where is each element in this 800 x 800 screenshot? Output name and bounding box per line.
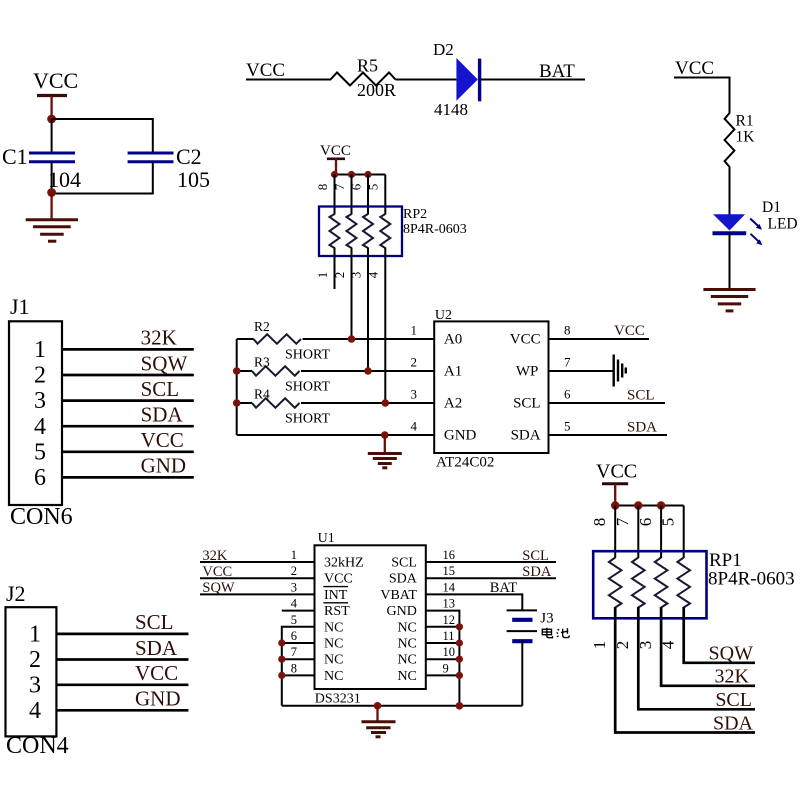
node A1 junction xyxy=(364,367,372,375)
svg-text:NC: NC xyxy=(397,620,416,635)
wire xyxy=(246,79,331,81)
wire U1 pin6 xyxy=(282,642,315,644)
svg-text:U2: U2 xyxy=(435,308,452,323)
svg-text:3: 3 xyxy=(349,272,364,279)
resistor R3 xyxy=(237,355,331,395)
wire pin7 xyxy=(637,506,639,559)
svg-text:VCC: VCC xyxy=(135,661,178,685)
resistor R2 xyxy=(237,319,331,363)
svg-text:12: 12 xyxy=(443,613,456,627)
ground (rotated, on WP) xyxy=(614,355,626,387)
svg-text:SCL: SCL xyxy=(391,556,417,571)
resistor R4 xyxy=(237,387,331,427)
node RP2 pin6 junction xyxy=(364,171,371,178)
svg-text:7: 7 xyxy=(332,183,347,190)
svg-text:NC: NC xyxy=(324,637,343,652)
svg-text:8P4R-0603: 8P4R-0603 xyxy=(403,222,467,237)
wire U1 pin14 VBAT xyxy=(426,594,523,610)
svg-text:SHORT: SHORT xyxy=(285,380,331,395)
wire J1-2 xyxy=(62,374,194,377)
wire U1 pin7 xyxy=(282,658,315,660)
wire RP1 pin2 SCL xyxy=(638,607,755,709)
wire U1 pin11 xyxy=(426,642,460,644)
svg-text:VBAT: VBAT xyxy=(380,588,417,603)
svg-text:4148: 4148 xyxy=(434,100,468,119)
svg-text:32K: 32K xyxy=(141,326,177,350)
wire xyxy=(729,167,731,216)
svg-text:J3: J3 xyxy=(540,611,553,627)
svg-text:SDA: SDA xyxy=(522,564,552,580)
svg-text:1: 1 xyxy=(291,548,297,562)
wire U1 pin10 xyxy=(426,658,460,660)
svg-text:SQW: SQW xyxy=(202,580,235,596)
wire U1 bottom bus xyxy=(282,705,523,707)
power VCC (top-right) xyxy=(674,58,730,114)
label 电池 battery xyxy=(542,628,569,638)
node RP1 pin8 junction xyxy=(611,501,619,509)
svg-text:6: 6 xyxy=(636,518,655,527)
svg-text:R5: R5 xyxy=(357,56,378,76)
svg-text:5: 5 xyxy=(366,184,381,191)
capacitor C2 xyxy=(128,144,210,192)
node RP2 pin7 junction xyxy=(348,171,355,178)
svg-text:6: 6 xyxy=(349,183,364,190)
svg-text:GND: GND xyxy=(141,454,187,478)
wire xyxy=(51,162,53,194)
wire pin6 xyxy=(367,175,369,215)
svg-text:VCC: VCC xyxy=(246,60,285,81)
svg-text:A2: A2 xyxy=(444,396,462,412)
svg-text:104: 104 xyxy=(48,167,81,192)
svg-text:1: 1 xyxy=(590,641,609,650)
svg-text:NC: NC xyxy=(324,620,343,635)
svg-text:1: 1 xyxy=(411,323,418,338)
svg-text:SQW: SQW xyxy=(709,643,754,665)
svg-text:SDA: SDA xyxy=(627,420,657,436)
svg-text:1: 1 xyxy=(29,621,41,647)
ground (below C1) xyxy=(26,193,78,242)
svg-text:2: 2 xyxy=(29,647,41,673)
svg-text:13: 13 xyxy=(443,597,456,611)
node A2 junction xyxy=(382,399,390,407)
node pin8 junction xyxy=(278,672,285,679)
wire xyxy=(729,233,731,289)
svg-text:R2: R2 xyxy=(254,319,270,334)
svg-text:4: 4 xyxy=(29,698,41,724)
node pin10 junction xyxy=(456,656,463,663)
wire U2 pin7 WP xyxy=(549,370,613,372)
wire xyxy=(301,370,434,372)
wire J2-3 xyxy=(56,683,188,686)
node RP2 pin8 junction xyxy=(331,171,338,178)
svg-text:2: 2 xyxy=(411,355,418,370)
svg-text:VCC: VCC xyxy=(320,143,351,159)
svg-text:NC: NC xyxy=(397,669,416,684)
svg-text:SDA: SDA xyxy=(511,428,541,444)
wire battery down xyxy=(521,641,523,706)
svg-text:GND: GND xyxy=(135,687,181,711)
svg-text:U1: U1 xyxy=(318,531,335,546)
wire xyxy=(52,119,153,153)
svg-text:7: 7 xyxy=(291,645,297,659)
svg-text:SCL: SCL xyxy=(141,377,180,401)
svg-text:6: 6 xyxy=(564,387,571,402)
svg-text:J2: J2 xyxy=(6,581,26,606)
wire pin8 xyxy=(614,506,616,559)
wire RP2 pin4 xyxy=(384,248,386,404)
svg-text:3: 3 xyxy=(34,388,46,414)
svg-text:SCL: SCL xyxy=(715,689,752,711)
wire pin6 xyxy=(660,506,662,559)
wire U1 pin9 xyxy=(426,674,460,676)
wire J2-1 xyxy=(56,633,188,636)
svg-text:SQW: SQW xyxy=(141,351,188,375)
svg-text:3: 3 xyxy=(411,387,418,402)
power VCC (above RP1) xyxy=(596,461,637,506)
svg-text:J1: J1 xyxy=(10,294,30,319)
svg-text:CON6: CON6 xyxy=(10,504,73,530)
svg-text:105: 105 xyxy=(177,167,210,192)
wire RP1 pin4 SQW xyxy=(684,607,755,663)
diode D2 xyxy=(433,40,480,119)
svg-text:2: 2 xyxy=(291,564,297,578)
svg-text:200R: 200R xyxy=(357,80,396,100)
svg-text:15: 15 xyxy=(443,564,456,578)
connector J1 CON6 xyxy=(9,294,73,530)
svg-text:3: 3 xyxy=(291,580,297,594)
svg-text:AT24C02: AT24C02 xyxy=(436,455,494,471)
svg-text:2: 2 xyxy=(332,272,347,279)
ground (below U1) xyxy=(362,706,396,737)
svg-text:D1: D1 xyxy=(762,199,781,216)
wire U1 pin15 SDA xyxy=(426,577,556,579)
power VCC (top-left) xyxy=(33,68,78,119)
wire U1 pin4 RST stub xyxy=(282,610,315,612)
svg-text:VCC: VCC xyxy=(141,428,184,452)
node bottom-gnd junction xyxy=(374,702,382,710)
wire U2 pin5 SDA xyxy=(549,434,668,436)
resistor network RP2 xyxy=(319,207,467,257)
svg-text:6: 6 xyxy=(291,629,297,643)
svg-text:NC: NC xyxy=(324,669,343,684)
svg-text:SDA: SDA xyxy=(135,636,178,660)
wire U1 pin3 SQW xyxy=(200,593,315,595)
svg-text:WP: WP xyxy=(516,364,539,380)
svg-text:2: 2 xyxy=(34,363,46,389)
svg-text:SDA: SDA xyxy=(389,572,418,587)
wire J1-3 xyxy=(62,399,194,402)
svg-text:NC: NC xyxy=(324,653,343,668)
svg-text:32K: 32K xyxy=(715,666,750,688)
wire RP1 pin3 32K xyxy=(661,607,755,686)
svg-text:VCC: VCC xyxy=(675,58,714,79)
svg-text:8: 8 xyxy=(590,518,609,527)
svg-text:RP2: RP2 xyxy=(403,207,427,222)
svg-text:16: 16 xyxy=(443,548,456,562)
svg-text:6: 6 xyxy=(34,465,46,491)
wire J2-2 xyxy=(56,658,188,661)
svg-text:4: 4 xyxy=(411,419,418,434)
svg-text:5: 5 xyxy=(564,419,571,434)
svg-text:1: 1 xyxy=(34,337,46,363)
wire xyxy=(301,402,434,404)
wire RP1 top bus xyxy=(615,505,684,507)
node U2 GND junction xyxy=(381,431,389,439)
wire U1 pin5 xyxy=(282,627,315,706)
connector J2 CON4 xyxy=(6,581,69,759)
svg-text:A1: A1 xyxy=(444,364,462,380)
svg-text:BAT: BAT xyxy=(539,61,575,82)
svg-text:GND: GND xyxy=(444,428,477,444)
svg-text:SHORT: SHORT xyxy=(285,348,331,363)
capacitor C1 xyxy=(2,144,81,192)
node pin11 junction xyxy=(456,639,463,646)
svg-text:4: 4 xyxy=(291,597,298,611)
svg-text:7: 7 xyxy=(613,517,632,526)
wire xyxy=(481,79,585,81)
svg-text:SCL: SCL xyxy=(522,548,549,564)
wire J1-5 xyxy=(62,450,194,453)
svg-text:INT: INT xyxy=(324,588,348,603)
svg-text:5: 5 xyxy=(291,613,297,627)
wire RP2 pin1 stub xyxy=(334,248,336,290)
node C1-C2 ground junction xyxy=(47,188,56,197)
svg-text:9: 9 xyxy=(443,661,449,675)
node VCC-C1 junction xyxy=(47,115,56,124)
svg-text:NC: NC xyxy=(397,653,416,668)
ground (below U2 GND) xyxy=(368,435,402,468)
wire J1-4 xyxy=(62,425,194,428)
wire xyxy=(396,79,457,81)
node pin7 junction xyxy=(278,656,285,663)
svg-text:C1: C1 xyxy=(2,144,28,169)
wire RP2 pin2 xyxy=(351,248,353,340)
svg-text:SHORT: SHORT xyxy=(285,412,331,427)
wire U2 pin6 SCL xyxy=(549,402,666,404)
svg-text:SCL: SCL xyxy=(627,388,655,404)
ground (below D1) xyxy=(703,290,755,311)
wire U1 pin2 VCC xyxy=(200,577,315,579)
svg-text:14: 14 xyxy=(443,580,456,594)
svg-text:SCL: SCL xyxy=(513,396,541,412)
resistor R1 xyxy=(725,113,756,167)
wire pin7 xyxy=(351,175,353,215)
wire left bus of R2/R3/R4 xyxy=(236,339,238,435)
wire U1 pin16 SCL xyxy=(426,561,556,563)
node RP1 pin7 junction xyxy=(634,501,642,509)
wire J2-4 xyxy=(56,709,188,712)
svg-text:R3: R3 xyxy=(254,355,270,370)
svg-text:VCC: VCC xyxy=(596,461,637,483)
svg-text:11: 11 xyxy=(443,629,455,643)
wire J1-1 xyxy=(62,348,194,351)
svg-text:32K: 32K xyxy=(202,548,228,564)
wire xyxy=(51,119,53,153)
svg-text:5: 5 xyxy=(34,439,46,465)
wire U2 pin8 VCC xyxy=(549,338,650,340)
svg-text:3: 3 xyxy=(29,672,41,698)
wire J1-6 xyxy=(62,476,194,479)
battery J3 xyxy=(507,610,554,641)
resistor R5 xyxy=(331,56,397,101)
wire xyxy=(335,174,386,176)
svg-text:8: 8 xyxy=(564,323,571,338)
wire xyxy=(52,162,153,194)
wire pin5 xyxy=(683,506,685,559)
svg-text:SCL: SCL xyxy=(135,610,174,634)
node R3 left junction xyxy=(233,367,241,375)
wire GND row xyxy=(237,434,435,436)
svg-text:SDA: SDA xyxy=(141,403,184,427)
svg-text:32kHZ: 32kHZ xyxy=(324,556,364,571)
wire U1 pin1 32K xyxy=(200,561,315,563)
node pin6 junction xyxy=(278,639,285,646)
svg-text:A0: A0 xyxy=(444,332,462,348)
wire pin5 xyxy=(384,175,386,215)
svg-text:DS3231: DS3231 xyxy=(315,692,361,707)
svg-text:8P4R-0603: 8P4R-0603 xyxy=(708,569,795,590)
svg-text:8: 8 xyxy=(291,661,297,675)
svg-text:RST: RST xyxy=(324,604,350,619)
svg-text:GND: GND xyxy=(387,604,417,619)
svg-text:7: 7 xyxy=(564,355,571,370)
svg-text:NC: NC xyxy=(397,637,416,652)
IC U1 DS3231 xyxy=(315,531,426,707)
svg-text:VCC: VCC xyxy=(324,572,353,587)
svg-text:1K: 1K xyxy=(736,129,756,146)
node R4 left junction xyxy=(233,399,241,407)
svg-text:5: 5 xyxy=(659,518,678,527)
svg-text:VCC: VCC xyxy=(510,332,541,348)
svg-text:4: 4 xyxy=(366,271,381,278)
svg-text:LED: LED xyxy=(768,216,798,233)
node pin9 junction xyxy=(456,672,463,679)
svg-text:CON4: CON4 xyxy=(6,733,69,759)
resistor network RP1 xyxy=(593,550,794,618)
LED D1 xyxy=(713,199,798,245)
node RP1 pin6 junction xyxy=(657,501,665,509)
svg-text:R1: R1 xyxy=(736,113,754,130)
svg-text:VCC: VCC xyxy=(33,68,78,93)
svg-text:VCC: VCC xyxy=(614,323,645,339)
svg-text:SDA: SDA xyxy=(713,712,754,734)
svg-text:8: 8 xyxy=(315,184,330,191)
svg-text:D2: D2 xyxy=(433,40,454,59)
svg-text:10: 10 xyxy=(443,645,456,659)
power VCC (above RP2) xyxy=(320,143,351,175)
wire U1 pin8 xyxy=(282,674,315,676)
wire RP2 pin3 xyxy=(367,248,369,372)
svg-text:VCC: VCC xyxy=(202,564,232,580)
svg-text:BAT: BAT xyxy=(490,580,518,596)
wire U1 pin13 GND xyxy=(426,611,460,706)
wire xyxy=(303,338,435,340)
svg-text:4: 4 xyxy=(34,414,46,440)
wire pin8 xyxy=(334,175,336,215)
svg-text:1: 1 xyxy=(315,272,330,279)
node A0 junction xyxy=(348,335,356,343)
svg-text:R4: R4 xyxy=(254,387,270,402)
node pin12 junction xyxy=(456,623,463,630)
node bottom-right junction xyxy=(456,702,464,710)
op IC U2 AT24C02 xyxy=(434,308,548,471)
svg-text:C2: C2 xyxy=(176,144,202,169)
wire RP1 pin1 SDA xyxy=(615,607,755,733)
wire U1 pin12 xyxy=(426,626,460,628)
